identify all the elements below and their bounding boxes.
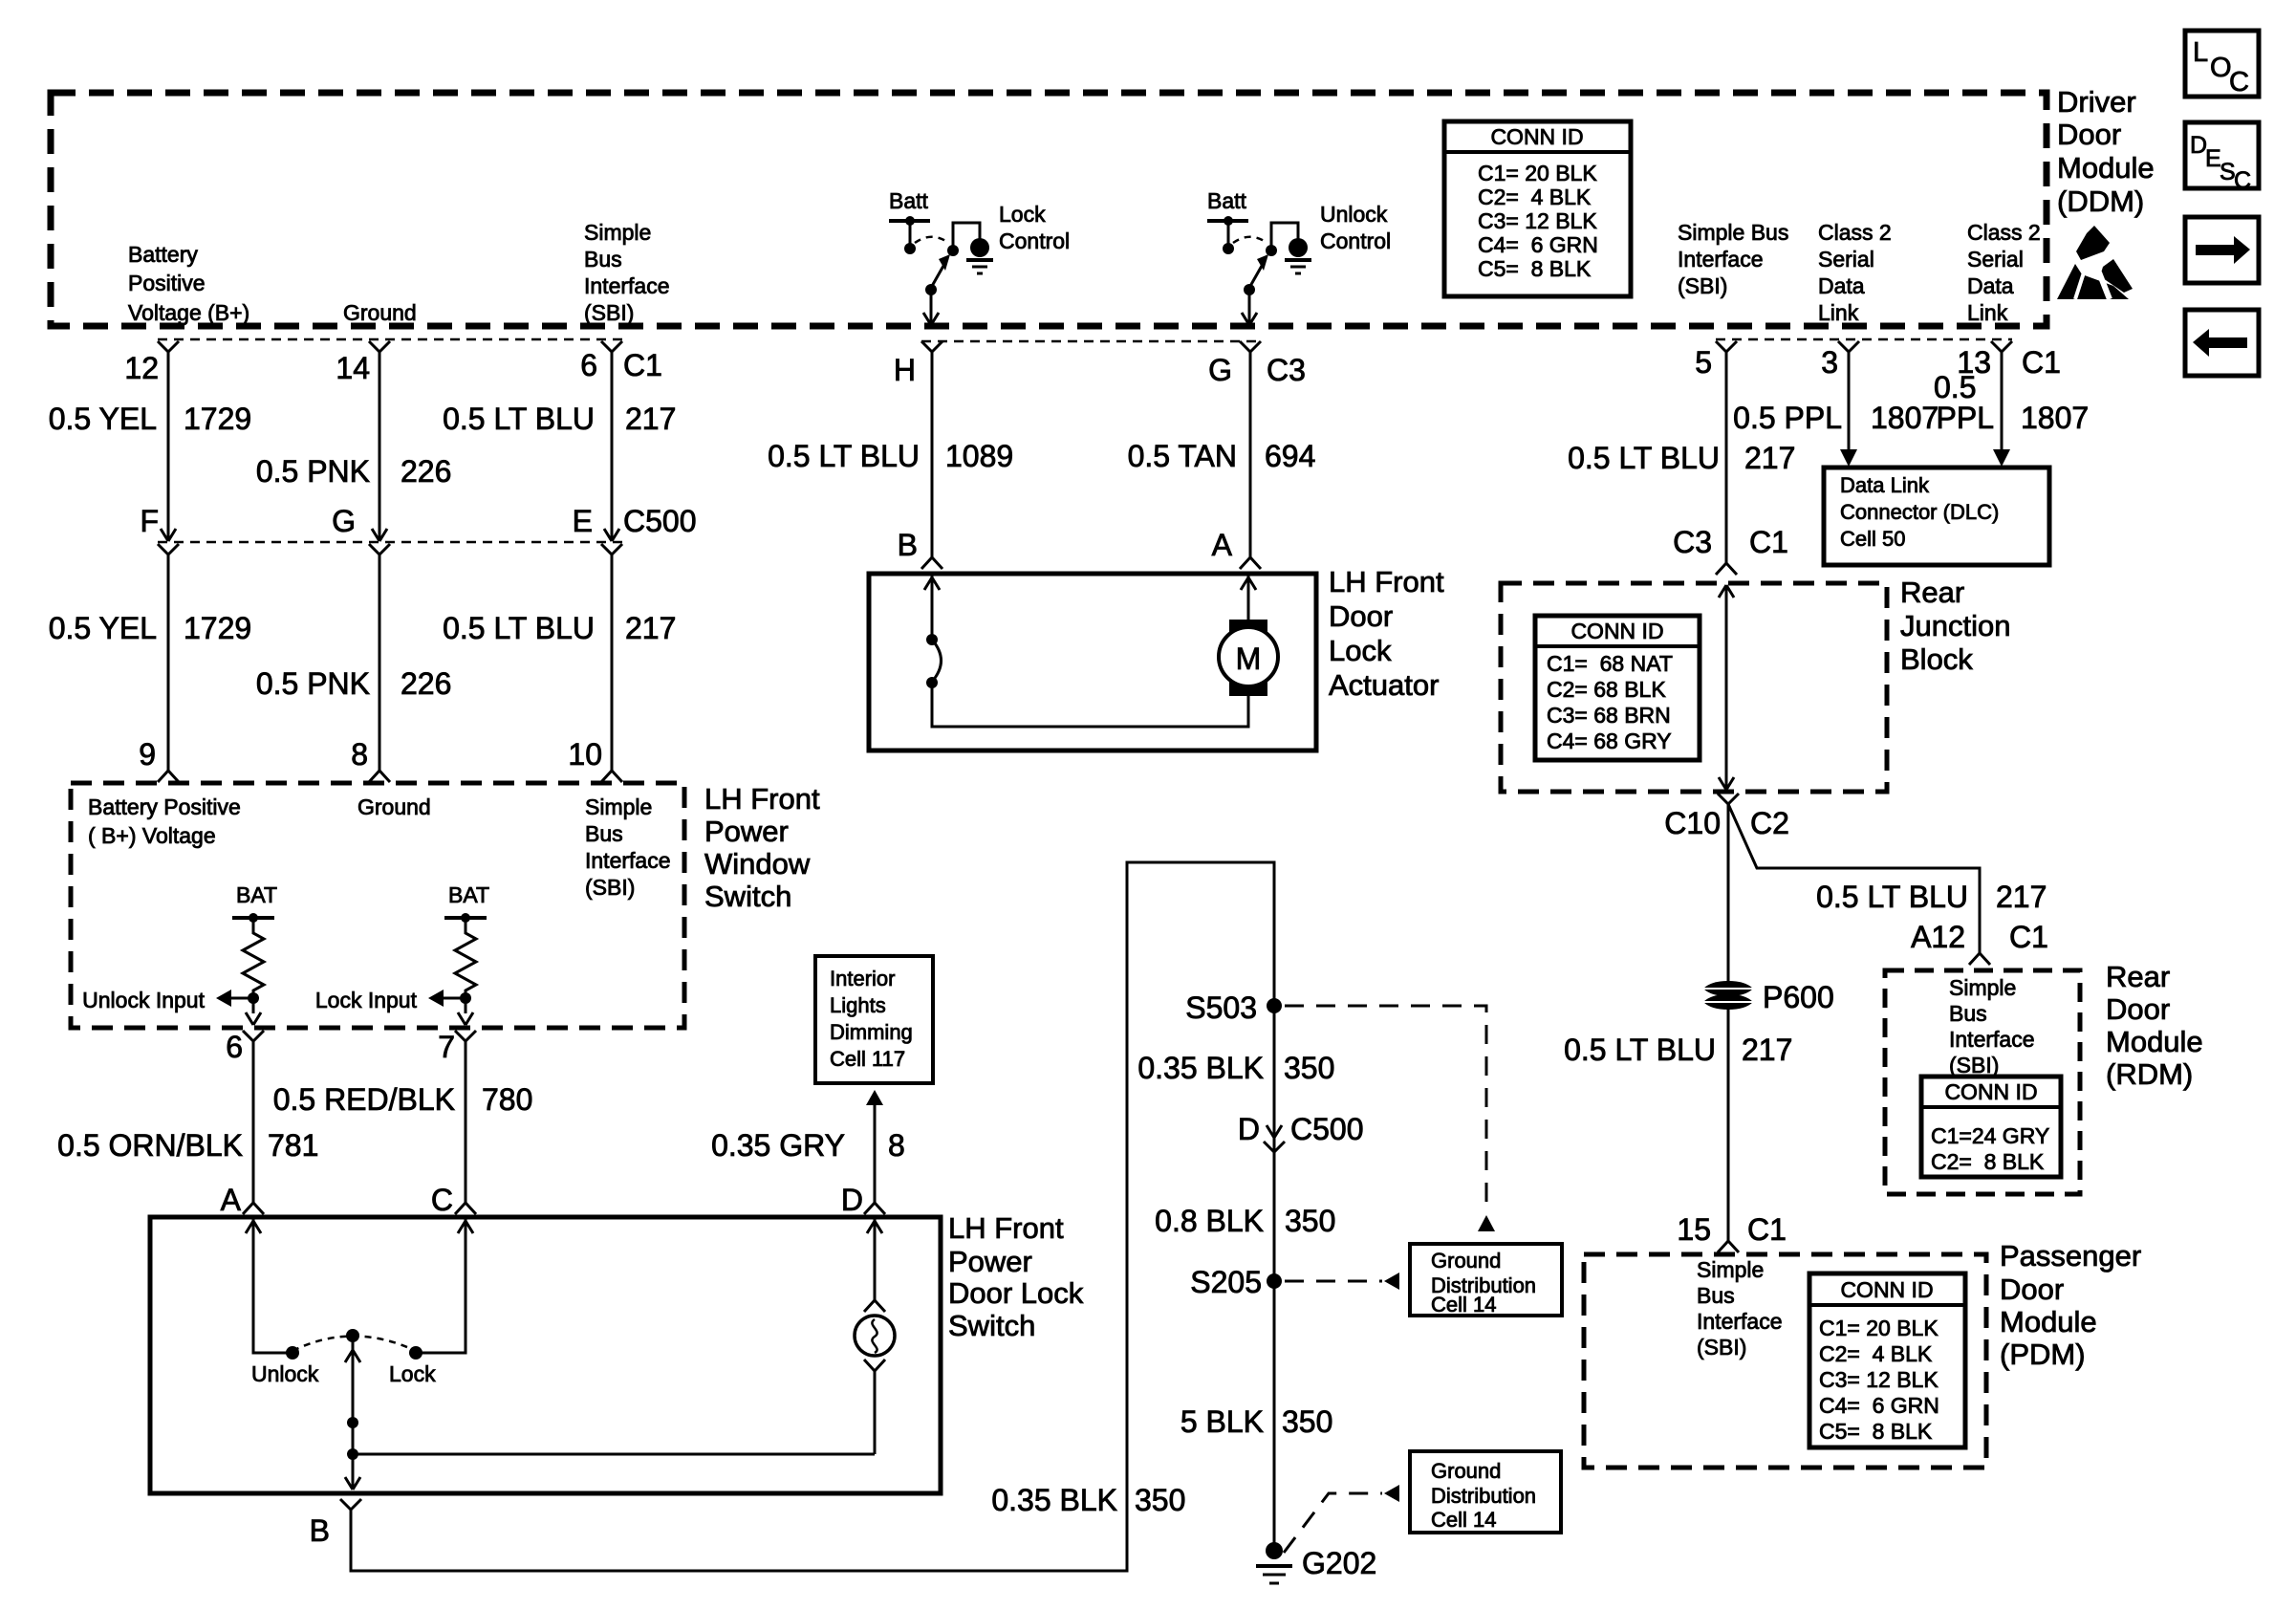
- svg-text:C4= 68 GRY: C4= 68 GRY: [1547, 729, 1672, 753]
- actuator internal switch: [924, 574, 1248, 727]
- svg-text:C5= 8 BLK: C5= 8 BLK: [1819, 1419, 1933, 1444]
- DDM pin function: Class 2 Serial Data Link (pin 13): [1967, 220, 2041, 325]
- lamp branch wire from D: [855, 1217, 895, 1454]
- svg-text:Junction: Junction: [1900, 609, 2010, 642]
- RDM name label: [2106, 960, 2203, 1091]
- svg-text:Class 2: Class 2: [1818, 220, 1892, 245]
- svg-text:5 BLK: 5 BLK: [1180, 1404, 1264, 1439]
- svg-text:LH Front: LH Front: [704, 782, 820, 816]
- svg-text:3: 3: [1821, 345, 1838, 380]
- DDM name label: [2057, 85, 2155, 218]
- DDM connector C1 thin dashed line (left group): [158, 338, 622, 341]
- svg-text:CONN ID: CONN ID: [1570, 619, 1663, 643]
- connector C500 thin dashed line: [158, 541, 622, 544]
- svg-text:G: G: [1208, 353, 1232, 387]
- splice S503: [1185, 990, 1282, 1025]
- svg-text:0.5 LT BLU: 0.5 LT BLU: [1568, 441, 1720, 475]
- svg-text:Cell 14: Cell 14: [1431, 1508, 1496, 1532]
- RJB name label: [1900, 576, 2010, 676]
- svg-text:F: F: [140, 504, 159, 538]
- svg-text:(SBI): (SBI): [585, 875, 635, 900]
- ground G202: [1256, 1542, 1376, 1583]
- wire 0.5 LT BLU 217 (pin 5): [1568, 341, 1795, 575]
- wire 0.5 LT BLU 217 (lower): [443, 544, 676, 782]
- svg-text:C: C: [2234, 167, 2251, 194]
- moving contact dashed arc: [292, 1329, 416, 1351]
- RDM CONN ID table: [1921, 1077, 2061, 1177]
- svg-text:C3: C3: [1673, 525, 1712, 559]
- svg-text:Interior: Interior: [830, 967, 895, 990]
- Rear Junction Block dashed box: [1501, 583, 1887, 792]
- wire 0.5 ORN/BLK 781: [57, 1031, 318, 1214]
- svg-text:Rear: Rear: [2106, 960, 2170, 993]
- wire label 0.5 LT BLU 217 (below P600): [1564, 1033, 1792, 1067]
- svg-text:694: 694: [1265, 439, 1315, 473]
- wire label 0.8 BLK 350: [1155, 1204, 1335, 1238]
- bottom wire label 0.35 BLK 350: [991, 1483, 1185, 1517]
- DDM pin function: Simple Bus Interface SBI right: [1678, 220, 1788, 298]
- svg-text:6: 6: [226, 1030, 243, 1064]
- svg-text:Simple: Simple: [584, 220, 651, 245]
- LH Front Power Window Switch dashed box: [71, 783, 684, 1028]
- wire 0.5 YEL 1729 (upper): [49, 341, 251, 541]
- pin B bracket and label: [310, 1499, 361, 1548]
- svg-text:0.5 LT BLU: 0.5 LT BLU: [768, 439, 920, 473]
- LH Front Door Lock Actuator box: [869, 574, 1316, 751]
- svg-text:Module: Module: [2000, 1305, 2097, 1338]
- svg-text:1089: 1089: [945, 439, 1013, 473]
- svg-text:Actuator: Actuator: [1329, 668, 1439, 702]
- svg-text:D: D: [841, 1183, 863, 1217]
- svg-text:Lock: Lock: [389, 1361, 436, 1386]
- svg-text:C1=24 GRY: C1=24 GRY: [1931, 1123, 2049, 1148]
- RJB CONN ID table: [1535, 616, 1700, 760]
- svg-text:Bus: Bus: [1949, 1001, 1987, 1026]
- svg-text:Interface: Interface: [584, 273, 670, 298]
- svg-text:Passenger: Passenger: [2000, 1239, 2141, 1273]
- svg-text:Switch: Switch: [948, 1309, 1035, 1342]
- svg-text:217: 217: [1744, 441, 1795, 475]
- svg-text:Ground: Ground: [1431, 1459, 1501, 1483]
- svg-text:Switch: Switch: [704, 880, 791, 913]
- svg-text:Simple: Simple: [585, 794, 652, 819]
- svg-text:C2= 4 BLK: C2= 4 BLK: [1478, 185, 1592, 209]
- svg-text:Lock: Lock: [999, 202, 1046, 227]
- svg-text:Link: Link: [1818, 300, 1859, 325]
- svg-text:Door Lock: Door Lock: [948, 1276, 1084, 1310]
- svg-text:Lock Input: Lock Input: [315, 988, 418, 1012]
- svg-text:G202: G202: [1302, 1546, 1376, 1580]
- RDM pin function SBI: [1949, 975, 2035, 1077]
- svg-text:9: 9: [139, 737, 156, 772]
- wire 0.5 PPL 1807 (pin 3): [1733, 341, 1939, 467]
- svg-text:Simple Bus: Simple Bus: [1678, 220, 1788, 245]
- svg-text:350: 350: [1285, 1204, 1335, 1238]
- svg-text:E: E: [573, 504, 593, 538]
- svg-text:Simple: Simple: [1949, 975, 2016, 1000]
- DDM pin function: Simple Bus Interface SBI left: [584, 220, 670, 325]
- DDM connector C1 thin dashed line (right group): [1716, 338, 2012, 341]
- svg-text:Power: Power: [704, 815, 789, 848]
- svg-text:Data Link: Data Link: [1840, 473, 1930, 497]
- svg-text:Control: Control: [1320, 228, 1391, 253]
- svg-text:Batt: Batt: [1207, 188, 1247, 213]
- svg-text:5: 5: [1695, 345, 1712, 380]
- svg-text:350: 350: [1282, 1404, 1332, 1439]
- svg-text:Lock: Lock: [1329, 634, 1392, 667]
- svg-text:(DDM): (DDM): [2057, 185, 2144, 218]
- svg-text:Door: Door: [2000, 1273, 2064, 1306]
- svg-text:226: 226: [401, 454, 451, 489]
- svg-text:(PDM): (PDM): [2000, 1338, 2086, 1371]
- svg-text:Door: Door: [2057, 118, 2121, 151]
- svg-text:S503: S503: [1185, 990, 1257, 1025]
- Interior Lights Dimming Cell 117 box: [815, 956, 933, 1083]
- bracket into PDM: [1718, 1241, 1739, 1252]
- svg-text:0.5 YEL: 0.5 YEL: [49, 402, 157, 436]
- svg-text:0.8 BLK: 0.8 BLK: [1155, 1204, 1264, 1238]
- wire C inside switch: [409, 1217, 473, 1360]
- svg-text:Ground: Ground: [343, 300, 417, 325]
- svg-text:0.5 PNK: 0.5 PNK: [256, 454, 370, 489]
- svg-text:C500: C500: [1290, 1112, 1364, 1146]
- svg-text:(RDM): (RDM): [2106, 1057, 2193, 1091]
- svg-text:S205: S205: [1190, 1265, 1262, 1299]
- svg-text:Interface: Interface: [1678, 247, 1764, 272]
- wire 0.5 PNK 226 (upper): [256, 341, 452, 541]
- svg-text:Simple: Simple: [1697, 1257, 1764, 1282]
- DESC box: [2185, 122, 2259, 194]
- svg-text:C1: C1: [1747, 1212, 1787, 1247]
- svg-text:C: C: [2229, 67, 2249, 98]
- svg-text:C1: C1: [2022, 345, 2061, 380]
- svg-text:C500: C500: [623, 504, 697, 538]
- DDM connector C3 thin dashed line (middle group): [921, 340, 1261, 343]
- svg-text:A: A: [221, 1183, 242, 1217]
- svg-text:C3: C3: [1267, 353, 1306, 387]
- svg-text:Unlock Input: Unlock Input: [82, 988, 205, 1012]
- svg-text:LH Front: LH Front: [1329, 565, 1444, 598]
- svg-text:Bus: Bus: [585, 821, 623, 846]
- svg-text:Connector (DLC): Connector (DLC): [1840, 500, 1999, 524]
- svg-text:C1= 20 BLK: C1= 20 BLK: [1478, 161, 1597, 185]
- svg-text:0.5: 0.5: [1934, 370, 1976, 404]
- svg-text:217: 217: [1996, 880, 2047, 914]
- svg-text:C2= 8 BLK: C2= 8 BLK: [1931, 1149, 2045, 1174]
- svg-text:8: 8: [351, 737, 368, 772]
- svg-text:6: 6: [580, 348, 597, 382]
- Ground Distribution Cell 14 box lower: [1410, 1451, 1561, 1533]
- svg-text:C3= 68 BRN: C3= 68 BRN: [1547, 703, 1671, 728]
- window switch pin functions: [88, 794, 671, 900]
- left arrow box: [2185, 310, 2259, 376]
- svg-text:L: L: [2193, 37, 2208, 68]
- PDM name label: [2000, 1239, 2141, 1371]
- svg-text:Power: Power: [948, 1245, 1032, 1278]
- dashed reference wire S205 to ground distribution: [1285, 1273, 1399, 1290]
- svg-text:PPL: PPL: [1937, 401, 1994, 435]
- svg-text:Module: Module: [2106, 1025, 2203, 1058]
- right arrow box: [2185, 217, 2259, 283]
- svg-text:C4= 6 GRN: C4= 6 GRN: [1819, 1393, 1939, 1418]
- svg-text:Control: Control: [999, 228, 1070, 253]
- svg-text:0.5 PPL: 0.5 PPL: [1733, 401, 1842, 435]
- wire 0.5 YEL 1729 (lower): [49, 544, 251, 782]
- Data Link Connector DLC box: [1824, 468, 2049, 565]
- svg-text:C10: C10: [1664, 806, 1721, 840]
- wire label 5 BLK 350: [1180, 1404, 1333, 1439]
- svg-text:Rear: Rear: [1900, 576, 1964, 609]
- svg-text:Battery: Battery: [128, 242, 198, 267]
- dashed reference wire S503 to ground distribution: [1285, 1006, 1495, 1231]
- svg-text:Bus: Bus: [1697, 1283, 1735, 1308]
- svg-text:1807: 1807: [2021, 401, 2089, 435]
- Passenger Door Module PDM dashed box: [1584, 1254, 1986, 1468]
- svg-text:(SBI): (SBI): [1949, 1053, 1999, 1077]
- svg-text:0.5 LT BLU: 0.5 LT BLU: [443, 402, 595, 436]
- svg-text:Data: Data: [1967, 273, 2014, 298]
- svg-text:Lights: Lights: [830, 993, 886, 1017]
- horizontal wire to lamp leg: [353, 1453, 875, 1456]
- LOC box: [2185, 31, 2259, 98]
- svg-text:M: M: [1236, 642, 1262, 676]
- svg-text:217: 217: [1742, 1033, 1792, 1067]
- wire B loop to ground wire: [351, 862, 1274, 1571]
- svg-text:781: 781: [268, 1128, 318, 1163]
- svg-text:Driver: Driver: [2057, 85, 2136, 119]
- bracket below RJB: [1718, 794, 1739, 804]
- BAT resistor lock input: [315, 882, 489, 1025]
- svg-text:0.35 BLK: 0.35 BLK: [1137, 1051, 1264, 1085]
- svg-text:CONN ID: CONN ID: [1944, 1079, 2037, 1104]
- wire label 0.35 GRY 8: [711, 1128, 905, 1163]
- svg-text:Positive: Positive: [128, 271, 206, 295]
- svg-text:(SBI): (SBI): [584, 300, 634, 325]
- dashed reference wire G202 to ground distribution: [1284, 1485, 1399, 1553]
- svg-text:Door: Door: [2106, 992, 2170, 1026]
- ESD sensitivity symbol: [2057, 226, 2133, 299]
- svg-text:Block: Block: [1900, 642, 1973, 676]
- svg-text:Voltage (B+): Voltage (B+): [128, 300, 249, 325]
- svg-text:0.5 ORN/BLK: 0.5 ORN/BLK: [57, 1128, 243, 1163]
- wire 0.5 LT BLU 217 (upper): [443, 341, 676, 541]
- svg-text:217: 217: [625, 611, 676, 645]
- svg-text:LH Front: LH Front: [948, 1211, 1064, 1245]
- door lock switch name label: [948, 1211, 1084, 1342]
- splice S205: [1190, 1265, 1282, 1299]
- svg-text:Window: Window: [704, 847, 811, 881]
- svg-text:C3= 12 BLK: C3= 12 BLK: [1478, 208, 1597, 233]
- main wire below RJB to P600: [1727, 804, 1730, 1241]
- svg-text:350: 350: [1135, 1483, 1185, 1517]
- svg-text:C1= 68 NAT: C1= 68 NAT: [1547, 651, 1673, 676]
- svg-text:G: G: [332, 504, 356, 538]
- svg-text:0.5 LT BLU: 0.5 LT BLU: [1564, 1033, 1716, 1067]
- svg-text:C1: C1: [623, 348, 662, 382]
- BAT resistor unlock input: [82, 882, 277, 1025]
- svg-text:0.35 GRY: 0.35 GRY: [711, 1128, 845, 1163]
- svg-text:217: 217: [625, 402, 676, 436]
- svg-text:(SBI): (SBI): [1697, 1335, 1746, 1360]
- branch wire to RDM: [1728, 804, 2048, 965]
- svg-text:Distribution: Distribution: [1431, 1484, 1536, 1508]
- svg-text:0.5 LT BLU: 0.5 LT BLU: [443, 611, 595, 645]
- connector C500 crossing pin D: [1238, 1112, 1364, 1152]
- svg-text:8: 8: [888, 1128, 905, 1163]
- svg-text:Bus: Bus: [584, 247, 622, 272]
- svg-text:B: B: [898, 528, 918, 562]
- svg-text:14: 14: [336, 351, 370, 385]
- svg-text:Serial: Serial: [1818, 247, 1874, 272]
- svg-text:( B+) Voltage: ( B+) Voltage: [88, 823, 216, 848]
- svg-text:CONN ID: CONN ID: [1490, 124, 1583, 149]
- wire 0.5 PNK 226 (lower): [256, 544, 452, 782]
- svg-text:226: 226: [401, 666, 451, 701]
- svg-text:Cell 117: Cell 117: [830, 1047, 905, 1071]
- svg-text:1729: 1729: [184, 402, 251, 436]
- svg-text:10: 10: [568, 737, 602, 772]
- PDM CONN ID table: [1809, 1273, 1965, 1447]
- svg-text:A: A: [1212, 528, 1233, 562]
- svg-text:P600: P600: [1763, 980, 1834, 1014]
- svg-text:C5= 8 BLK: C5= 8 BLK: [1478, 256, 1592, 281]
- svg-text:12: 12: [124, 351, 159, 385]
- svg-text:Ground: Ground: [1431, 1249, 1501, 1273]
- wire 0.5 TAN 694: [1128, 341, 1316, 569]
- svg-text:0.5 RED/BLK: 0.5 RED/BLK: [273, 1082, 455, 1117]
- svg-text:15: 15: [1677, 1212, 1711, 1247]
- svg-text:Data: Data: [1818, 273, 1865, 298]
- svg-text:1807: 1807: [1871, 401, 1939, 435]
- svg-text:0.5 TAN: 0.5 TAN: [1128, 439, 1237, 473]
- svg-text:CONN ID: CONN ID: [1840, 1277, 1933, 1302]
- wire 0.5 RED/BLK 780: [273, 1031, 533, 1214]
- svg-text:C2: C2: [1750, 806, 1789, 840]
- svg-text:0.5 LT BLU: 0.5 LT BLU: [1816, 880, 1968, 914]
- svg-text:Interface: Interface: [585, 848, 671, 873]
- Driver Door Module DDM dashed box: [51, 93, 2047, 326]
- svg-text:BAT: BAT: [236, 882, 277, 907]
- Ground Distribution Cell 14 box upper: [1410, 1244, 1562, 1316]
- svg-text:BAT: BAT: [448, 882, 489, 907]
- DDM CONN ID table: [1444, 121, 1631, 296]
- svg-text:C4= 6 GRN: C4= 6 GRN: [1478, 232, 1598, 257]
- DDM pin function: Class 2 Serial Data Link (pin 3): [1818, 220, 1892, 325]
- wire 0.5 LT BLU 1089: [768, 341, 1013, 569]
- window switch name label: [704, 782, 820, 913]
- svg-text:C1: C1: [2009, 920, 2048, 954]
- svg-text:C2= 68 BLK: C2= 68 BLK: [1547, 677, 1666, 702]
- svg-text:0.35 BLK: 0.35 BLK: [991, 1483, 1117, 1517]
- inline connector P600: [1703, 980, 1834, 1014]
- svg-text:Unlock: Unlock: [251, 1361, 319, 1386]
- LH Front Power Door Lock Switch box: [150, 1217, 941, 1493]
- svg-text:Class 2: Class 2: [1967, 220, 2041, 245]
- svg-text:C2= 4 BLK: C2= 4 BLK: [1819, 1341, 1933, 1366]
- svg-text:Dimming: Dimming: [830, 1020, 913, 1044]
- svg-text:Module: Module: [2057, 151, 2155, 185]
- svg-text:(SBI): (SBI): [1678, 273, 1727, 298]
- svg-text:C3= 12 BLK: C3= 12 BLK: [1819, 1367, 1939, 1392]
- svg-text:H: H: [894, 353, 916, 387]
- wire 0.5 PPL 1807 (pin 13): [1934, 341, 2089, 467]
- wire A inside switch: [246, 1217, 299, 1360]
- svg-text:Serial: Serial: [1967, 247, 2024, 272]
- PDM pin function SBI: [1697, 1257, 1783, 1360]
- svg-text:Link: Link: [1967, 300, 2008, 325]
- svg-text:A12: A12: [1911, 920, 1965, 954]
- svg-text:Batt: Batt: [889, 188, 929, 213]
- svg-text:Battery Positive: Battery Positive: [88, 794, 241, 819]
- svg-text:C: C: [431, 1183, 453, 1217]
- Lock Control switch inside DDM: [889, 188, 1070, 325]
- wire D to interior lights with arrow: [864, 1090, 885, 1214]
- svg-text:Interface: Interface: [1697, 1309, 1783, 1334]
- svg-text:D: D: [1238, 1112, 1260, 1146]
- Rear Door Module RDM dashed box: [1885, 970, 2080, 1194]
- wire label 0.35 BLK 350 (upper): [1137, 1051, 1334, 1085]
- common wire with arrow: [345, 1336, 360, 1490]
- svg-text:0.5 PNK: 0.5 PNK: [256, 666, 370, 701]
- svg-text:B: B: [310, 1513, 330, 1548]
- svg-text:C1= 20 BLK: C1= 20 BLK: [1819, 1316, 1939, 1340]
- svg-text:Interface: Interface: [1949, 1027, 2035, 1052]
- svg-text:Cell 50: Cell 50: [1840, 527, 1905, 551]
- svg-text:780: 780: [482, 1082, 532, 1117]
- svg-text:0.5 YEL: 0.5 YEL: [49, 611, 157, 645]
- svg-text:C1: C1: [1749, 525, 1788, 559]
- Unlock Control switch inside DDM: [1207, 188, 1391, 325]
- svg-text:1729: 1729: [184, 611, 251, 645]
- svg-text:Ground: Ground: [357, 794, 431, 819]
- actuator name label: [1329, 565, 1444, 702]
- svg-text:Unlock: Unlock: [1320, 202, 1388, 227]
- svg-text:7: 7: [438, 1030, 455, 1064]
- svg-text:Cell 14: Cell 14: [1431, 1293, 1496, 1316]
- wire through RJB: [1719, 585, 1734, 790]
- svg-text:350: 350: [1284, 1051, 1334, 1085]
- svg-text:Door: Door: [1329, 599, 1393, 633]
- actuator motor M: [1219, 574, 1278, 696]
- DDM pin function: Battery Positive Voltage (B+): [128, 242, 249, 325]
